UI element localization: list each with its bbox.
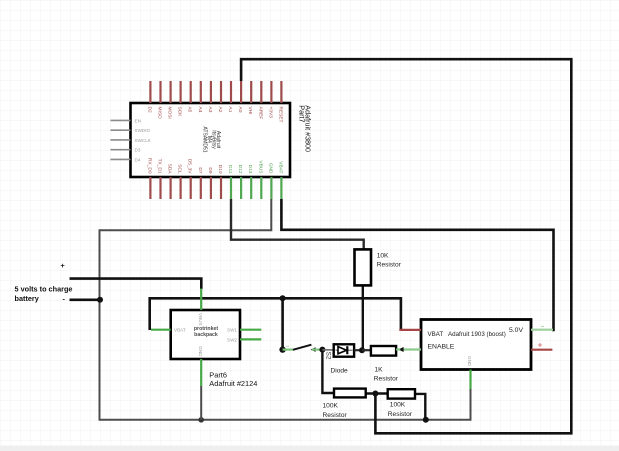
pin D4 bbox=[111, 158, 131, 160]
wire: 100K resistor 2 right to ground bus bbox=[415, 394, 425, 420]
pin D11 bbox=[230, 177, 232, 199]
U3 pin 5.0V (green stub) bbox=[531, 329, 553, 331]
svg-text:1K: 1K bbox=[375, 366, 384, 373]
pin VBUS bbox=[260, 177, 262, 199]
svg-text:D13: D13 bbox=[247, 165, 253, 174]
IC U1 Adafruit ItsyBitsy M4 (Part7 Adafruit #3800) bbox=[131, 103, 291, 177]
svg-text:GND: GND bbox=[467, 356, 472, 367]
svg-text:10K: 10K bbox=[377, 253, 389, 260]
svg-text:D5_3V: D5_3V bbox=[187, 159, 193, 174]
wire: between 100K resistors bbox=[366, 392, 388, 394]
pin VHI bbox=[250, 81, 252, 103]
right contact arrowhead bbox=[311, 347, 316, 352]
pin MISO bbox=[159, 81, 161, 103]
pin A1 bbox=[230, 81, 232, 103]
svg-text:SW2: SW2 bbox=[227, 337, 237, 342]
pin A0 bbox=[240, 81, 242, 103]
junction dot: switch output node bbox=[319, 347, 325, 353]
wire: chip GND net grey bus (chip GND pin -> left -> down -> bottom -> up to boost GND) bbox=[100, 199, 471, 420]
pin D5_3V bbox=[190, 177, 192, 199]
svg-text:GND: GND bbox=[198, 346, 203, 357]
junction dot: divider midpoint bbox=[372, 391, 378, 397]
svg-text:5 volts to charge: 5 volts to charge bbox=[15, 285, 73, 294]
resistor R3 100K (left) bbox=[323, 389, 366, 419]
pin EN bbox=[111, 119, 131, 121]
svg-text:GND: GND bbox=[267, 163, 273, 174]
svg-text:VHI: VHI bbox=[247, 107, 253, 115]
U1 top pins D2..RESET (red stubs + rotated labels) bbox=[146, 81, 283, 123]
svg-text:AREF: AREF bbox=[257, 107, 263, 120]
pin A5 bbox=[190, 81, 192, 103]
svg-text:A1: A1 bbox=[227, 107, 233, 113]
svg-text:D11: D11 bbox=[227, 165, 233, 174]
svg-text:backpack: backpack bbox=[194, 332, 218, 338]
svg-text:MISO: MISO bbox=[157, 107, 163, 120]
pin D12 bbox=[240, 177, 242, 199]
svg-text:SWDIO: SWDIO bbox=[135, 128, 151, 133]
pin D2 bbox=[149, 81, 151, 103]
svg-text:VBUS: VBUS bbox=[257, 160, 263, 173]
svg-text:SDA: SDA bbox=[167, 164, 173, 175]
pin SCK bbox=[180, 81, 182, 103]
wire: switch branch down bbox=[281, 298, 284, 349]
junction dot: switch branch bbox=[280, 295, 286, 301]
svg-text:S2: S2 bbox=[324, 352, 331, 360]
pin SWCLK bbox=[111, 139, 131, 141]
U2 pin VBAT bbox=[151, 329, 171, 331]
svg-text:ENABLE: ENABLE bbox=[428, 344, 455, 351]
U2 pin VBUS bbox=[200, 289, 202, 311]
junction dot: diode/1K/10K node bbox=[359, 347, 365, 353]
pin GND bbox=[270, 177, 272, 199]
svg-text:battery: battery bbox=[15, 294, 40, 303]
svg-text:EN: EN bbox=[135, 118, 141, 123]
svg-text:Diode: Diode bbox=[331, 367, 349, 374]
svg-text:A0: A0 bbox=[237, 107, 243, 113]
svg-text:A3: A3 bbox=[207, 107, 213, 113]
IC U3 Adafruit 1903 boost bbox=[398, 320, 553, 390]
svg-text:Resistor: Resistor bbox=[377, 262, 402, 269]
pin A4 bbox=[200, 81, 202, 103]
svg-text:Adafruit 1903 (boost): Adafruit 1903 (boost) bbox=[448, 331, 506, 338]
wire: chip D11 to 10K resistor top bbox=[231, 199, 364, 249]
pin TX_D1 bbox=[159, 177, 161, 199]
IC U2 protrinket backpack (Part6 Adafruit #2124) bbox=[151, 289, 261, 420]
pin D10 bbox=[220, 177, 222, 199]
U1 label Part7 Adafruit #3800 bbox=[297, 105, 312, 152]
svg-text:Resistor: Resistor bbox=[323, 412, 348, 419]
U2 pin SW2 bbox=[240, 338, 261, 340]
U3 pin VBAT (red stub) bbox=[399, 329, 421, 331]
pin D9 bbox=[210, 177, 212, 199]
pin VBAT bbox=[280, 177, 282, 199]
svg-text:SCK: SCK bbox=[177, 107, 183, 118]
svg-text:D3: D3 bbox=[135, 148, 141, 153]
svg-text:D7: D7 bbox=[197, 167, 203, 173]
pin D3 bbox=[111, 149, 131, 151]
U1 left pins EN,SWDIO,SWCLK,D3,D4 (grey stubs + labels) bbox=[111, 118, 152, 162]
svg-text:VBAT: VBAT bbox=[428, 331, 444, 338]
junction dot: switch left contact bbox=[279, 346, 285, 352]
U3 pin GND (green) bbox=[469, 370, 471, 390]
svg-text:RESET: RESET bbox=[277, 107, 283, 123]
svg-text:RX_D0: RX_D0 bbox=[146, 158, 152, 174]
svg-text:VBAT: VBAT bbox=[277, 161, 283, 173]
svg-text:D12: D12 bbox=[237, 165, 243, 174]
pin RESET bbox=[280, 81, 282, 103]
svg-text:Resistor: Resistor bbox=[374, 376, 399, 383]
diode D1 bbox=[322, 344, 362, 374]
svg-text:5.0V: 5.0V bbox=[509, 327, 523, 334]
svg-text:100K: 100K bbox=[390, 401, 406, 408]
svg-text:+: + bbox=[61, 261, 65, 270]
pin AREF bbox=[260, 81, 262, 103]
svg-text:D10: D10 bbox=[217, 165, 223, 174]
wire: 10K resistor bottom to diode/1K junction bbox=[362, 286, 364, 351]
svg-text:A2: A2 bbox=[217, 107, 223, 113]
svg-text:D9: D9 bbox=[207, 167, 213, 173]
svg-text:A5: A5 bbox=[187, 107, 193, 113]
pin RX_D0 bbox=[149, 177, 151, 199]
svg-text:VBUS: VBUS bbox=[198, 313, 203, 326]
U2 pin GND + wire to bus bbox=[200, 359, 202, 386]
svg-text:Resistor: Resistor bbox=[388, 411, 413, 418]
junction dot: battery minus on bus bbox=[97, 297, 103, 303]
pin +3V3 bbox=[270, 81, 272, 103]
U2 label Part6 Adafruit #2124 bbox=[209, 370, 257, 388]
wire: battery minus to ground bus bbox=[70, 298, 101, 301]
pin SCL bbox=[180, 177, 182, 199]
svg-text:+3V3: +3V3 bbox=[267, 107, 273, 119]
svg-text:Adafruit #2124: Adafruit #2124 bbox=[209, 379, 257, 388]
svg-text:D4: D4 bbox=[135, 157, 141, 162]
pin SDA bbox=[170, 177, 172, 199]
svg-text:SCL: SCL bbox=[177, 164, 183, 174]
svg-text:MOSI: MOSI bbox=[167, 107, 173, 119]
switch S2 bbox=[279, 345, 331, 360]
pin MOSI bbox=[170, 81, 172, 103]
U3 pin right unconnected (red stub) bbox=[531, 349, 552, 351]
battery terminal labels bbox=[15, 261, 73, 304]
arrowhead on ENABLE wire bbox=[398, 347, 403, 352]
wire: chip VBAT to boost 5.0V output bbox=[281, 199, 553, 330]
U3 pin ENABLE (green stub) bbox=[400, 348, 421, 350]
svg-text:VBAT: VBAT bbox=[174, 328, 186, 333]
junction dot: protrinket GND on bus bbox=[198, 417, 204, 423]
svg-text:SW1: SW1 bbox=[227, 328, 237, 333]
wire: switch junction down to 100K resistor 1 bbox=[322, 350, 334, 393]
wire: protrinket VBAT -> switch top -> boost VBAT bbox=[150, 298, 401, 330]
pin SWDIO bbox=[111, 129, 131, 131]
resistor R4 100K (right) bbox=[388, 389, 415, 418]
resistor R1 10K (vertical) bbox=[355, 249, 402, 285]
pin A3 bbox=[210, 81, 212, 103]
resistor R2 1K bbox=[362, 346, 400, 383]
svg-text:SWCLK: SWCLK bbox=[135, 138, 152, 143]
svg-text:Adafruit #3800: Adafruit #3800 bbox=[304, 105, 313, 152]
pin D7 bbox=[200, 177, 202, 199]
svg-text:100K: 100K bbox=[323, 402, 339, 409]
wire: battery plus to protrinket VBUS bbox=[70, 279, 202, 289]
junction dot: on ground bus bbox=[423, 417, 429, 423]
switch lever bbox=[293, 345, 312, 350]
pin A2 bbox=[220, 81, 222, 103]
svg-text:TX_D1: TX_D1 bbox=[157, 159, 163, 174]
svg-text:ATSAMD51: ATSAMD51 bbox=[202, 126, 208, 152]
svg-text:A4: A4 bbox=[197, 107, 203, 113]
svg-text:D2: D2 bbox=[146, 107, 152, 113]
wire: A0 sense loop (chip A0 -> top -> right side -> bottom -> divider midpoint) bbox=[241, 59, 571, 433]
pin D13 bbox=[250, 177, 252, 199]
U1 bottom pins RX_D0..VBAT (red/green stubs + rotated labels) bbox=[146, 158, 283, 199]
bottom page edge bar bbox=[0, 446, 619, 451]
U2 pin SW1 bbox=[240, 329, 261, 331]
